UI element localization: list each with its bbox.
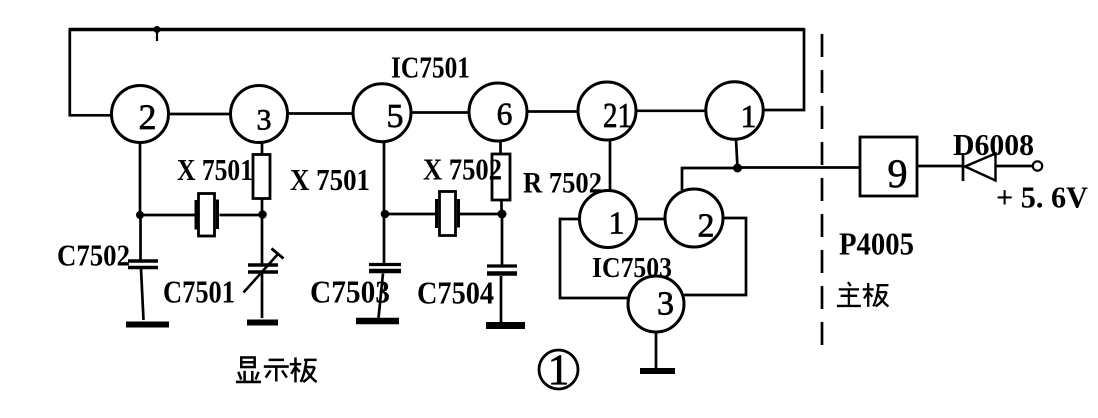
svg-text:C7504: C7504: [417, 275, 494, 311]
svg-text:5: 5: [387, 98, 404, 135]
svg-text:1: 1: [741, 99, 757, 134]
svg-text:C7503: C7503: [310, 275, 390, 310]
svg-text:21: 21: [603, 97, 632, 135]
svg-text:X 7501: X 7501: [290, 162, 370, 197]
svg-text:9: 9: [888, 151, 908, 196]
svg-text:IC7503: IC7503: [592, 252, 672, 284]
svg-text:C7501: C7501: [163, 275, 235, 310]
svg-text:R 7502: R 7502: [523, 167, 602, 200]
svg-text:X 7501: X 7501: [177, 153, 253, 187]
svg-text:C7502: C7502: [57, 238, 130, 273]
svg-text:X 7502: X 7502: [423, 152, 502, 187]
svg-text:3: 3: [657, 286, 674, 323]
svg-text:6: 6: [497, 97, 513, 132]
svg-text:IC7501: IC7501: [391, 50, 470, 85]
svg-text:P4005: P4005: [839, 227, 914, 262]
svg-text:1: 1: [548, 347, 570, 394]
svg-text:+ 5. 6V: + 5. 6V: [996, 180, 1089, 215]
svg-text:2: 2: [698, 208, 715, 245]
svg-text:1: 1: [609, 206, 625, 241]
svg-text:3: 3: [257, 104, 272, 137]
svg-text:D6008: D6008: [953, 127, 1034, 162]
svg-text:2: 2: [139, 97, 157, 137]
